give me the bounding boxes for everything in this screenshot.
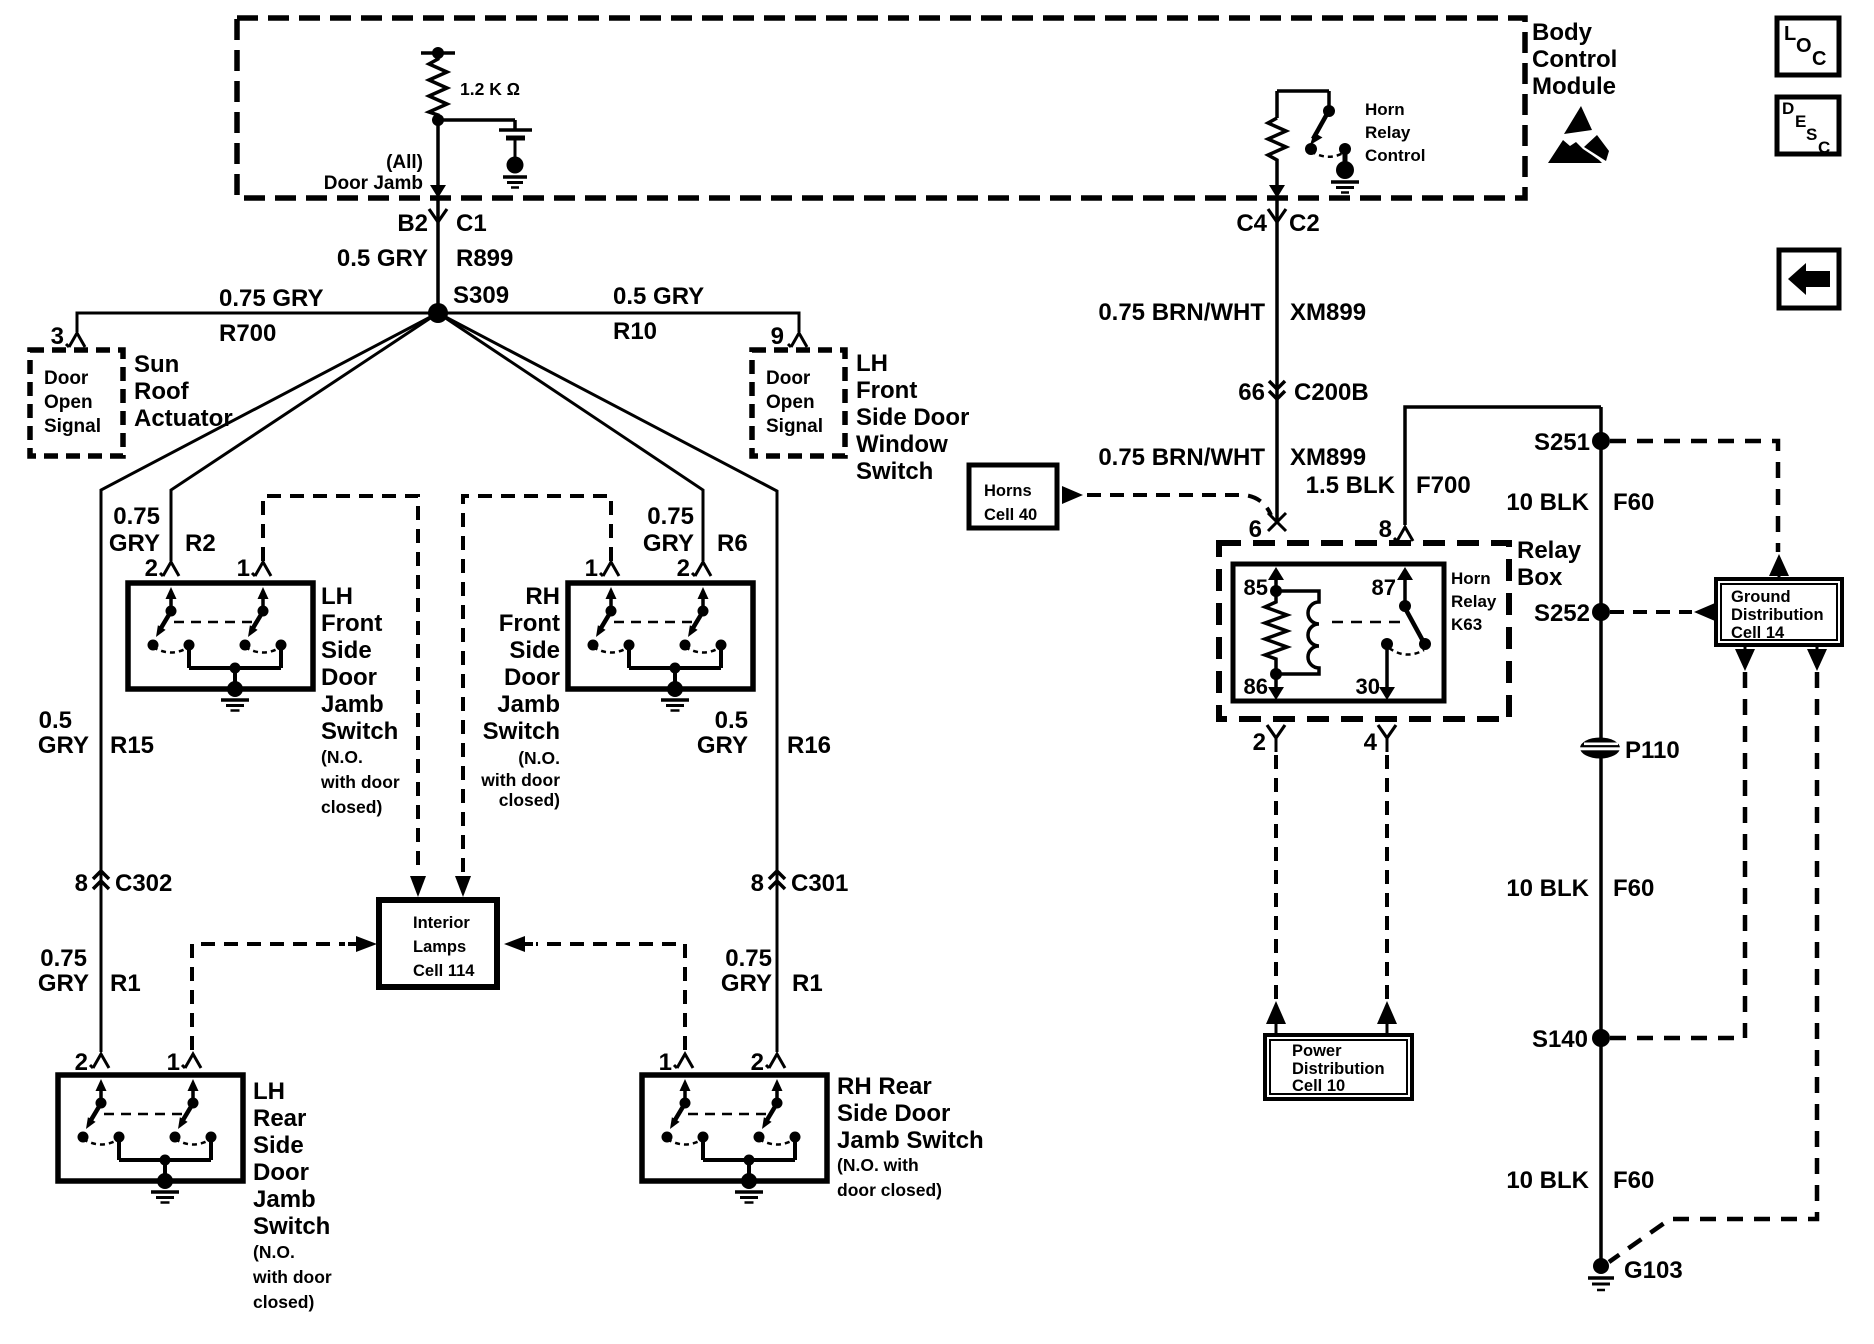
- svg-text:F60: F60: [1613, 875, 1654, 902]
- svg-text:Open: Open: [44, 392, 93, 413]
- svg-text:10 BLK: 10 BLK: [1506, 875, 1589, 902]
- svg-text:closed): closed): [253, 1292, 314, 1312]
- svg-text:B2: B2: [397, 210, 428, 237]
- svg-text:Relay: Relay: [1451, 592, 1497, 611]
- svg-text:XM899: XM899: [1290, 444, 1366, 471]
- svg-text:Body: Body: [1532, 19, 1593, 46]
- svg-text:R6: R6: [717, 530, 748, 557]
- svg-text:Control: Control: [1365, 146, 1425, 165]
- svg-text:with door: with door: [480, 770, 560, 790]
- svg-text:Door: Door: [321, 664, 377, 691]
- svg-text:Power: Power: [1292, 1042, 1342, 1060]
- svg-text:P110: P110: [1625, 737, 1680, 764]
- svg-text:S252: S252: [1534, 600, 1590, 627]
- svg-text:closed): closed): [321, 797, 382, 817]
- svg-text:9: 9: [771, 323, 784, 350]
- svg-text:Relay: Relay: [1517, 537, 1582, 564]
- svg-text:8: 8: [1379, 516, 1392, 543]
- svg-text:Door: Door: [504, 664, 560, 691]
- svg-text:1: 1: [167, 1049, 180, 1076]
- svg-text:Jamb Switch: Jamb Switch: [837, 1127, 984, 1154]
- svg-text:closed): closed): [499, 790, 560, 810]
- svg-text:Module: Module: [1532, 73, 1616, 100]
- svg-text:Front: Front: [321, 610, 382, 637]
- svg-text:K63: K63: [1451, 615, 1482, 634]
- svg-text:Jamb: Jamb: [253, 1186, 316, 1213]
- svg-text:66: 66: [1238, 379, 1265, 406]
- svg-text:Side: Side: [509, 637, 560, 664]
- svg-text:LH: LH: [856, 350, 888, 377]
- svg-text:86: 86: [1244, 674, 1268, 699]
- svg-text:Cell 114: Cell 114: [413, 962, 475, 980]
- svg-text:2: 2: [677, 555, 690, 582]
- svg-text:Side Door: Side Door: [856, 404, 969, 431]
- svg-text:10 BLK: 10 BLK: [1506, 489, 1589, 516]
- svg-text:Cell 40: Cell 40: [984, 506, 1037, 524]
- svg-text:(All): (All): [386, 152, 423, 173]
- svg-text:Switch: Switch: [321, 718, 398, 745]
- svg-text:Box: Box: [1517, 564, 1563, 591]
- svg-text:0.75: 0.75: [113, 503, 160, 530]
- svg-text:R2: R2: [185, 530, 216, 557]
- svg-text:Rear: Rear: [253, 1105, 306, 1132]
- svg-text:Control: Control: [1532, 46, 1617, 73]
- svg-text:2: 2: [751, 1049, 764, 1076]
- svg-text:Switch: Switch: [253, 1213, 330, 1240]
- svg-text:Door: Door: [766, 368, 811, 389]
- svg-text:C: C: [1818, 138, 1830, 157]
- svg-text:1: 1: [585, 555, 598, 582]
- svg-text:LH: LH: [253, 1078, 285, 1105]
- svg-text:GRY: GRY: [697, 732, 748, 759]
- svg-text:(N.O.: (N.O.: [321, 747, 363, 767]
- svg-text:0.5: 0.5: [715, 707, 748, 734]
- svg-text:Interior: Interior: [413, 914, 470, 932]
- svg-text:D: D: [1782, 99, 1794, 118]
- svg-text:S140: S140: [1532, 1026, 1588, 1053]
- svg-text:C301: C301: [791, 870, 848, 897]
- svg-text:S: S: [1806, 125, 1817, 144]
- svg-text:Signal: Signal: [766, 416, 823, 437]
- svg-text:85: 85: [1244, 575, 1268, 600]
- svg-text:0.5 GRY: 0.5 GRY: [613, 283, 704, 310]
- svg-text:E: E: [1795, 112, 1806, 131]
- svg-text:0.75 BRN/WHT: 0.75 BRN/WHT: [1098, 299, 1265, 326]
- svg-text:GRY: GRY: [38, 732, 89, 759]
- svg-text:Door Jamb: Door Jamb: [324, 173, 423, 194]
- svg-text:0.75 GRY: 0.75 GRY: [219, 285, 324, 312]
- svg-text:Jamb: Jamb: [321, 691, 384, 718]
- svg-text:Front: Front: [499, 610, 560, 637]
- svg-text:R899: R899: [456, 245, 513, 272]
- svg-text:Door: Door: [44, 368, 89, 389]
- svg-text:Signal: Signal: [44, 416, 101, 437]
- svg-text:with door: with door: [252, 1267, 332, 1287]
- svg-text:Front: Front: [856, 377, 917, 404]
- svg-text:Cell 10: Cell 10: [1292, 1077, 1345, 1095]
- svg-text:Horn: Horn: [1451, 569, 1491, 588]
- svg-text:F60: F60: [1613, 1167, 1654, 1194]
- svg-text:S309: S309: [453, 282, 509, 309]
- svg-text:87: 87: [1372, 575, 1396, 600]
- svg-text:Side: Side: [321, 637, 372, 664]
- svg-text:Sun: Sun: [134, 351, 179, 378]
- svg-text:0.75: 0.75: [725, 945, 772, 972]
- svg-text:with door: with door: [320, 772, 400, 792]
- svg-text:Roof: Roof: [134, 378, 190, 405]
- svg-text:O: O: [1796, 35, 1812, 57]
- svg-text:0.75: 0.75: [40, 945, 87, 972]
- svg-text:(N.O. with: (N.O. with: [837, 1155, 919, 1175]
- svg-text:1.2 K Ω: 1.2 K Ω: [460, 79, 520, 99]
- svg-text:XM899: XM899: [1290, 299, 1366, 326]
- svg-text:(N.O.: (N.O.: [253, 1242, 295, 1262]
- svg-text:C200B: C200B: [1294, 379, 1369, 406]
- svg-text:Distribution: Distribution: [1292, 1060, 1385, 1078]
- svg-text:8: 8: [751, 870, 764, 897]
- svg-text:R10: R10: [613, 318, 657, 345]
- svg-text:GRY: GRY: [643, 530, 694, 557]
- svg-text:C: C: [1812, 48, 1826, 70]
- svg-text:Horns: Horns: [984, 482, 1032, 500]
- svg-text:Cell 14: Cell 14: [1731, 624, 1785, 642]
- svg-text:Lamps: Lamps: [413, 938, 466, 956]
- svg-text:Horn: Horn: [1365, 100, 1405, 119]
- svg-text:30: 30: [1356, 674, 1380, 699]
- svg-text:Side: Side: [253, 1132, 304, 1159]
- svg-text:R15: R15: [110, 732, 154, 759]
- svg-text:1: 1: [659, 1049, 672, 1076]
- svg-text:C1: C1: [456, 210, 487, 237]
- svg-text:Ground: Ground: [1731, 588, 1791, 606]
- svg-text:2: 2: [145, 555, 158, 582]
- svg-text:Window: Window: [856, 431, 948, 458]
- svg-text:2: 2: [1253, 729, 1266, 756]
- svg-text:4: 4: [1364, 729, 1378, 756]
- svg-text:0.75 BRN/WHT: 0.75 BRN/WHT: [1098, 444, 1265, 471]
- svg-text:C302: C302: [115, 870, 172, 897]
- svg-text:C2: C2: [1289, 210, 1320, 237]
- svg-text:Switch: Switch: [856, 458, 933, 485]
- svg-text:(N.O.: (N.O.: [518, 748, 560, 768]
- svg-text:Switch: Switch: [483, 718, 560, 745]
- svg-text:Side Door: Side Door: [837, 1100, 950, 1127]
- svg-text:3: 3: [51, 323, 64, 350]
- svg-text:G103: G103: [1624, 1257, 1683, 1284]
- svg-text:Open: Open: [766, 392, 815, 413]
- svg-text:8: 8: [75, 870, 88, 897]
- svg-text:0.5 GRY: 0.5 GRY: [337, 245, 428, 272]
- svg-text:F700: F700: [1416, 472, 1471, 499]
- svg-text:Distribution: Distribution: [1731, 606, 1824, 624]
- svg-text:C4: C4: [1236, 210, 1267, 237]
- svg-text:R16: R16: [787, 732, 831, 759]
- svg-text:6: 6: [1249, 516, 1262, 543]
- svg-text:0.75: 0.75: [647, 503, 694, 530]
- svg-text:R1: R1: [792, 970, 823, 997]
- svg-text:L: L: [1784, 23, 1796, 45]
- svg-text:R700: R700: [219, 320, 276, 347]
- svg-text:RH: RH: [525, 583, 560, 610]
- svg-text:LH: LH: [321, 583, 353, 610]
- svg-text:GRY: GRY: [38, 970, 89, 997]
- svg-text:2: 2: [75, 1049, 88, 1076]
- svg-text:Door: Door: [253, 1159, 309, 1186]
- svg-text:R1: R1: [110, 970, 141, 997]
- svg-text:GRY: GRY: [721, 970, 772, 997]
- svg-text:Jamb: Jamb: [497, 691, 560, 718]
- svg-text:F60: F60: [1613, 489, 1654, 516]
- svg-text:GRY: GRY: [109, 530, 160, 557]
- svg-text:10 BLK: 10 BLK: [1506, 1167, 1589, 1194]
- svg-text:Relay: Relay: [1365, 123, 1411, 142]
- svg-text:RH Rear: RH Rear: [837, 1073, 932, 1100]
- svg-text:0.5: 0.5: [39, 707, 72, 734]
- svg-text:1.5 BLK: 1.5 BLK: [1306, 472, 1396, 499]
- svg-text:1: 1: [237, 555, 250, 582]
- svg-text:door closed): door closed): [837, 1180, 942, 1200]
- svg-text:S251: S251: [1534, 429, 1590, 456]
